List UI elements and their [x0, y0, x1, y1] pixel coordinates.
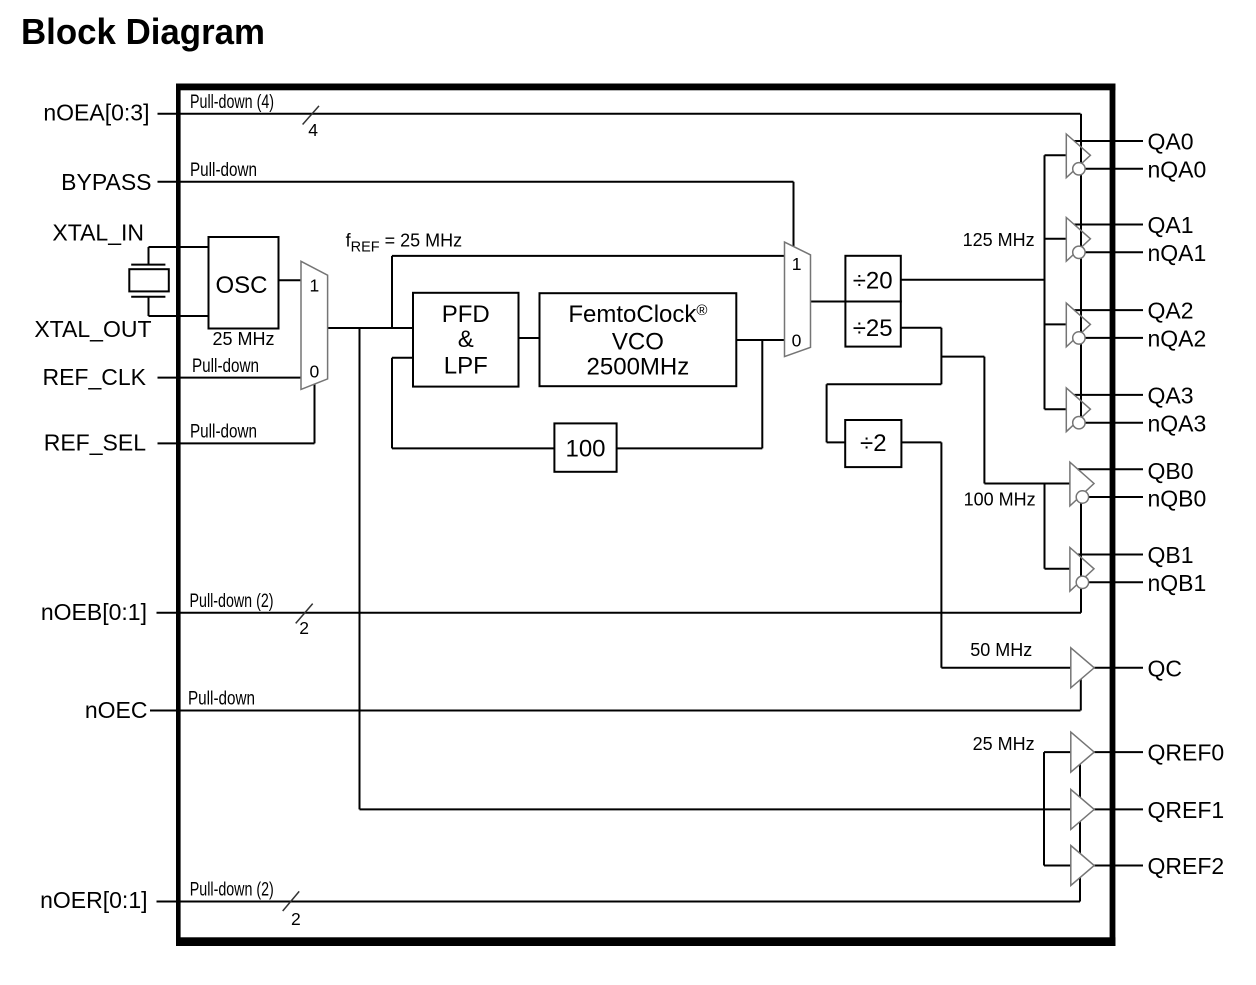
svg-text:÷2: ÷2: [860, 430, 887, 457]
svg-text:Pull-down: Pull-down: [188, 689, 255, 710]
svg-text:0: 0: [792, 331, 802, 351]
svg-text:Pull-down (4): Pull-down (4): [190, 92, 274, 113]
svg-text:QB1: QB1: [1148, 542, 1194, 568]
svg-text:4: 4: [308, 120, 318, 140]
svg-text:Block Diagram: Block Diagram: [21, 11, 265, 52]
svg-text:BYPASS: BYPASS: [61, 169, 151, 195]
svg-text:QA0: QA0: [1148, 129, 1194, 155]
svg-text:XTAL_IN: XTAL_IN: [52, 220, 144, 246]
svg-text:÷25: ÷25: [853, 315, 893, 342]
svg-text:50 MHz: 50 MHz: [970, 640, 1032, 660]
svg-text:Pull-down: Pull-down: [192, 356, 259, 377]
svg-text:nQA2: nQA2: [1148, 326, 1207, 352]
svg-text:2: 2: [299, 618, 309, 638]
svg-text:PFD: PFD: [442, 301, 490, 328]
svg-text:25 MHz: 25 MHz: [973, 734, 1035, 754]
svg-text:QB0: QB0: [1148, 458, 1194, 484]
svg-text:Pull-down: Pull-down: [190, 422, 257, 443]
svg-text:XTAL_OUT: XTAL_OUT: [34, 316, 151, 342]
svg-text:Pull-down: Pull-down: [190, 160, 257, 181]
svg-text:QREF2: QREF2: [1148, 853, 1225, 879]
svg-text:nQB1: nQB1: [1148, 570, 1207, 596]
svg-text:FemtoClock®: FemtoClock®: [568, 301, 707, 328]
svg-text:nOER[0:1]: nOER[0:1]: [40, 887, 147, 913]
svg-text:&: &: [458, 326, 474, 353]
svg-text:nQA1: nQA1: [1148, 240, 1207, 266]
svg-text:nQB0: nQB0: [1148, 486, 1207, 512]
svg-text:Pull-down (2): Pull-down (2): [190, 880, 274, 901]
svg-text:nOEB[0:1]: nOEB[0:1]: [41, 599, 147, 625]
svg-text:QREF1: QREF1: [1148, 797, 1225, 823]
svg-text:QA2: QA2: [1148, 298, 1194, 324]
svg-text:1: 1: [310, 276, 320, 296]
svg-text:0: 0: [310, 362, 320, 382]
svg-text:2500MHz: 2500MHz: [587, 354, 690, 381]
svg-text:100 MHz: 100 MHz: [964, 489, 1036, 509]
svg-text:÷20: ÷20: [853, 268, 893, 295]
svg-text:100: 100: [565, 436, 605, 463]
svg-text:REF_SEL: REF_SEL: [44, 430, 146, 456]
svg-text:OSC: OSC: [215, 272, 267, 299]
svg-text:2: 2: [291, 909, 301, 929]
svg-text:nQA0: nQA0: [1148, 156, 1207, 182]
svg-text:QC: QC: [1148, 655, 1183, 681]
svg-text:QA1: QA1: [1148, 212, 1194, 238]
svg-text:1: 1: [792, 254, 802, 274]
svg-text:nOEA[0:3]: nOEA[0:3]: [43, 99, 149, 125]
svg-text:QA3: QA3: [1148, 383, 1194, 409]
svg-text:25 MHz: 25 MHz: [212, 329, 274, 349]
svg-text:nOEC: nOEC: [85, 697, 148, 723]
svg-text:LPF: LPF: [444, 353, 488, 380]
svg-text:nQA3: nQA3: [1148, 410, 1207, 436]
svg-text:REF_CLK: REF_CLK: [42, 364, 146, 390]
svg-text:125 MHz: 125 MHz: [963, 230, 1035, 250]
svg-text:QREF0: QREF0: [1148, 740, 1225, 766]
svg-text:VCO: VCO: [612, 329, 664, 356]
svg-text:Pull-down (2): Pull-down (2): [190, 591, 274, 612]
